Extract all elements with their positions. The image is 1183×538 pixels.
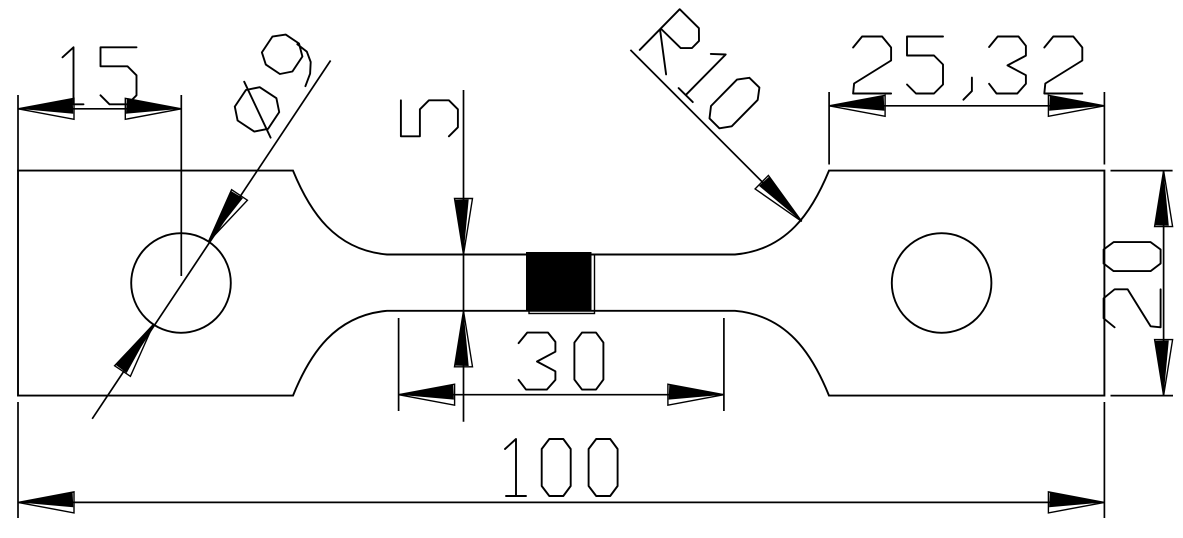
dimension 30: dimension line <box>399 394 724 396</box>
dimension 20: bottom arrow (points down) <box>1155 340 1173 396</box>
dimension 5: bottom arrow (points up) <box>455 311 473 367</box>
center gauge square outline <box>529 255 595 314</box>
dimension 5: text "5" rotated <box>401 100 458 136</box>
dimension 25,32: right arrow <box>1048 95 1104 116</box>
dimension R10: leader line <box>630 50 801 222</box>
dimension 25,32: left extension line <box>828 92 830 165</box>
dimension 15: left arrow <box>18 98 74 119</box>
dimension 30: right extension line <box>723 318 725 411</box>
dimension 15: right arrow <box>125 98 181 119</box>
dimension 20: dimension line <box>1163 171 1165 396</box>
dimension O9: lower arrow <box>115 324 154 376</box>
dimension 20: bottom extension line <box>1111 395 1174 397</box>
dimension 30: left arrow <box>399 384 455 405</box>
center gauge square (filled) <box>526 252 592 311</box>
dimension 25,32: dimension line <box>829 105 1104 107</box>
dimension O9: leader line through left circle <box>92 61 330 419</box>
dimension 15: left extension line <box>17 95 19 171</box>
left hole circle <box>131 233 231 333</box>
dimension 100: left extension line <box>17 402 19 518</box>
dimension 25,32: text "25,32" <box>853 37 891 94</box>
dimension 30: left extension line <box>398 318 400 411</box>
dimension 20: top extension line <box>1111 170 1173 172</box>
dimension 25,32: right extension line <box>1103 92 1105 165</box>
dimension 15: text "15" <box>63 47 84 104</box>
dimension 100: right arrow <box>1048 492 1104 513</box>
dimension 5: vertical dimension line <box>463 90 465 422</box>
right hole circle <box>892 233 992 333</box>
dimension 100: left arrow <box>18 492 74 513</box>
dimension O9: text "O9" <box>235 82 279 138</box>
dimension 100: dimension line <box>18 501 1104 503</box>
dimension O9: upper arrow <box>209 190 248 242</box>
dimension 25,32: left arrow <box>829 95 885 116</box>
dimension 5: top arrow (points down) <box>455 199 473 255</box>
dimension 30: text "30" <box>519 333 556 390</box>
dimension 15: dimension line <box>18 108 181 110</box>
dimension R10: text "R10" <box>640 9 699 74</box>
specimen outline (dog-bone) <box>18 171 1104 396</box>
dimension 20: text "20" rotated <box>1104 289 1161 327</box>
dimension 15: right extension line <box>180 95 182 276</box>
dimension 30: right arrow <box>668 384 724 405</box>
dimension 20: top arrow (points up) <box>1155 171 1173 227</box>
dimension 100: right extension line <box>1103 402 1105 518</box>
dimension 100: text "100" <box>505 439 526 496</box>
dimension R10: arrow at fillet <box>755 175 802 221</box>
